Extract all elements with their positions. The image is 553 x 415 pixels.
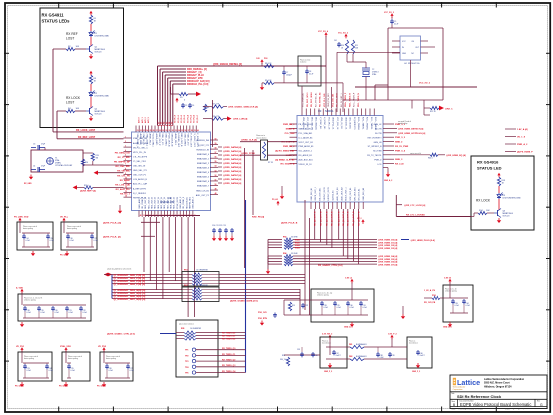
svg-text:AVDD_PLL2: AVDD_PLL2 (148, 134, 151, 146)
wire (90, 24, 92, 31)
net RX_PCLK- (103, 235, 121, 238)
svg-text:VD_PS1: VD_PS1 (16, 346, 25, 348)
svg-text:RX GS4911: RX GS4911 (42, 13, 65, 18)
svg-text:LOST: LOST (66, 101, 74, 105)
resistor R8 (262, 63, 274, 68)
svg-text:AUD_OUT_P1: AUD_OUT_P1 (196, 194, 210, 197)
svg-text:AGND_RETURN: AGND_RETURN (133, 142, 149, 145)
svg-text:RX REF: RX REF (66, 32, 78, 36)
svg-text:RX_Q1_OUT_B: RX_Q1_OUT_B (320, 211, 322, 226)
svg-text:SMB2_ADDR_1: SMB2_ADDR_1 (299, 128, 314, 131)
net @RX_GS4911_GENLOCK (228, 106, 258, 109)
svg-text:25: 25 (149, 130, 151, 132)
svg-text:XTAL_CAP_IN1: XTAL_CAP_IN1 (133, 137, 148, 140)
svg-text:DE_OUT_B01: DE_OUT_B01 (320, 187, 322, 201)
svg-text:0.1uF: 0.1uF (49, 370, 53, 372)
svg-text:TP3: TP3 (185, 361, 188, 363)
capacitor C5 (181, 103, 187, 108)
svg-text:PCL_SDA_B01: PCL_SDA_B01 (299, 132, 314, 135)
wire (471, 213, 494, 217)
svg-text:SMPTE_SEL: SMPTE_SEL (190, 196, 192, 209)
svg-text:AVD_3: AVD_3 (147, 117, 150, 123)
svg-text:35: 35 (181, 130, 183, 132)
svg-text:VDD_IO_271: VDD_IO_271 (161, 134, 163, 147)
svg-text:BLM18AG601: BLM18AG601 (356, 355, 367, 358)
svg-text:A_P1: A_P1 (160, 122, 163, 126)
svg-text:@RX_HDMI_D3 [4]: @RX_HDMI_D3 [4] (378, 247, 398, 250)
svg-text:@RX_GS4911_GENLOCK [4]: @RX_GS4911_GENLOCK [4] (228, 106, 258, 109)
svg-text:GND_SEL_271: GND_SEL_271 (133, 170, 148, 172)
svg-text:SD3_OUT_B: SD3_OUT_B (155, 196, 157, 208)
wire U2 refclk bundle verticals (158, 66, 173, 126)
wire (302, 36, 326, 109)
svg-text:Hillsboro, Oregon 97124: Hillsboro, Oregon 97124 (484, 385, 512, 388)
svg-text:53: 53 (215, 170, 217, 172)
svg-text:PB_SMB_CLK1: PB_SMB_CLK1 (299, 124, 314, 126)
svg-text:RX_1V8_FB: RX_1V8_FB (424, 302, 436, 304)
svg-text:3.3V_RX_2: 3.3V_RX_2 (322, 334, 333, 336)
svg-text:SMB2/DAT_2: SMB2/DAT_2 (197, 162, 210, 165)
title block address text (484, 378, 525, 389)
svg-text:PWR_5_3: PWR_5_3 (395, 137, 406, 139)
wire (244, 148, 246, 268)
LED D3 (497, 192, 521, 199)
svg-text:of device pairing: of device pairing (24, 300, 36, 302)
net C_F_2 (0, 0, 1, 1)
power VCC D1 chain (89, 11, 92, 16)
svg-text:RX_Q2_OUT_B: RX_Q2_OUT_B (327, 211, 329, 226)
svg-text:SCK_OUT_B1: SCK_OUT_B1 (350, 187, 352, 201)
net RX_GS4911_CTRL in (107, 333, 176, 336)
svg-text:VD_PLL1: VD_PLL1 (178, 115, 180, 123)
label RX GS4911 STATUS LEDs (42, 13, 71, 24)
svg-text:SMB_3: SMB_3 (395, 159, 403, 161)
svg-text:PS_LINK_VDD: PS_LINK_VDD (14, 217, 29, 219)
svg-text:RX_Q3_OUT_B: RX_Q3_OUT_B (332, 211, 334, 226)
power 1V8_B (444, 278, 452, 284)
svg-text:@RXD_DATA5 [4]: @RXD_DATA5 [4] (223, 166, 241, 169)
svg-text:U2: U2 (168, 196, 172, 200)
svg-text:GND_AUD_3: GND_AUD_3 (192, 196, 195, 209)
power VD_PS2 (98, 346, 107, 352)
svg-text:0.1uF: 0.1uF (337, 307, 341, 309)
svg-text:Place as close: Place as close (300, 60, 310, 62)
svg-text:N_RST_271: N_RST_271 (198, 145, 210, 147)
svg-text:Date:: Date: (452, 407, 457, 410)
wire (337, 52, 343, 112)
transistor Q1 (86, 45, 106, 54)
svg-text:H_SYNC_OUT: H_SYNC_OUT (190, 134, 192, 148)
resistor R2 10K (66, 46, 80, 51)
svg-text:U3: U3 (318, 109, 322, 113)
svg-text:@RX_HDMI_EQ [4]: @RX_HDMI_EQ [4] (446, 154, 466, 157)
wire (383, 168, 388, 172)
label TP box note (179, 323, 194, 326)
svg-text:PB_GENLOCK: PB_GENLOCK (115, 153, 131, 155)
label U2 bottom pin names (138, 196, 195, 209)
net RX_GS4911_DATA (230, 300, 258, 303)
ground (260, 85, 264, 90)
svg-text:GND_CORE2: GND_CORE2 (183, 134, 185, 147)
svg-text:TP2: TP2 (185, 355, 188, 357)
svg-text:CTL_PD_BYPS: CTL_PD_BYPS (133, 156, 148, 158)
svg-text:VD_PLL3: VD_PLL3 (184, 115, 186, 123)
svg-text:RX_CML_SEL: RX_CML_SEL (116, 166, 131, 168)
wire RX lock feed (396, 195, 471, 217)
svg-text:28: 28 (159, 130, 161, 132)
svg-text:RX_DDC_SCL1: RX_DDC_SCL1 (307, 92, 309, 107)
svg-text:39: 39 (194, 130, 196, 132)
svg-text:V_SYNC_OUT: V_SYNC_OUT (193, 134, 195, 148)
capacitor C8 (305, 66, 313, 83)
power labels pi filter (322, 334, 398, 340)
wire U2 right pin stubs (210, 138, 218, 195)
wire (53, 49, 124, 132)
label U3 right pin names (367, 124, 382, 166)
svg-text:R12 33: R12 33 (430, 111, 436, 113)
net RX_PCLK+ (103, 221, 121, 224)
wire (252, 150, 254, 215)
svg-text:RXD_RGB/Cb+ [4]: RXD_RGB/Cb+ [4] (187, 68, 207, 71)
svg-text:[4] SMB2_CLK_B1: [4] SMB2_CLK_B1 (275, 158, 295, 161)
svg-text:RX_LOS_AUD: RX_LOS_AUD (115, 183, 130, 186)
svg-text:close device: close device (322, 343, 331, 345)
svg-text:C3: C3 (33, 144, 35, 146)
svg-text:0.1uF: 0.1uF (41, 312, 45, 314)
svg-text:RXD/CLK_PLL [4:0]: RXD/CLK_PLL [4:0] (187, 83, 209, 86)
svg-text:BLM18AG601: BLM18AG601 (356, 343, 367, 346)
svg-text:SDO_EN_B1: SDO_EN_B1 (186, 196, 188, 209)
svg-text:PWR_5_4: PWR_5_4 (395, 149, 406, 152)
svg-text:A_P0: A_P0 (158, 122, 161, 126)
capacitor C9 (390, 17, 398, 25)
ground label (60, 251, 69, 257)
svg-text:R16: R16 (282, 355, 285, 357)
power PS_LINK_VDD (14, 217, 29, 223)
svg-text:device pairing: device pairing (68, 358, 78, 360)
svg-text:RX LOCK: RX LOCK (66, 96, 81, 100)
svg-text:GND_F_2: GND_F_2 (324, 371, 332, 373)
power 1V8_A (345, 277, 354, 284)
capacitor bank box C23 C24 (18, 351, 53, 381)
power XTAL_VDD (60, 345, 71, 352)
svg-text:R21 0: R21 0 (84, 185, 89, 187)
title block frame (450, 375, 547, 409)
power VCC_XO3 (384, 12, 394, 18)
svg-text:XTAL: XTAL (372, 73, 376, 76)
svg-text:VD_CORE_2: VD_CORE_2 (183, 196, 185, 209)
annotation box RX GS4911 STATUS LEDs (40, 8, 124, 128)
label U4 pins (402, 41, 420, 55)
capacitor bank box C16 C17 (61, 222, 98, 251)
svg-text:0.1uF: 0.1uF (55, 312, 59, 314)
svg-text:STATUS LEDs: STATUS LEDs (42, 19, 71, 24)
svg-text:SMB2/DAT_5: SMB2/DAT_5 (197, 176, 210, 179)
svg-text:VD_PLL7: VD_PLL7 (197, 115, 199, 123)
wire bus group A to right (219, 200, 310, 315)
svg-text:FB1: FB1 (349, 344, 352, 346)
svg-text:B: B (453, 403, 455, 407)
svg-text:series res nt fit: series res nt fit (410, 152, 422, 155)
svg-text:VD_PLL0: VD_PLL0 (175, 115, 177, 123)
svg-text:LED/GRN_SMD: LED/GRN_SMD (95, 36, 110, 38)
svg-text:RX1-_TMDS1: RX1-_TMDS1 (370, 117, 372, 130)
svg-text:1: 1 (125, 136, 126, 138)
capacitor bank box C25 (62, 351, 90, 381)
annotation box RX GS4916 STATUS LED (471, 156, 534, 230)
svg-text:R8 4.7K: R8 4.7K (265, 63, 272, 65)
svg-text:10 OHM/8P4R: 10 OHM/8P4R (196, 285, 208, 287)
svg-text:DDC_SDA_B1: DDC_SDA_B1 (315, 117, 318, 131)
svg-text:[4] RX_PCLK_B: [4] RX_PCLK_B (281, 222, 298, 225)
power VD_PS1 (16, 346, 25, 352)
wire to U3 (412, 100, 430, 115)
svg-text:1_8V_A_PS: 1_8V_A_PS (424, 289, 436, 292)
svg-text:XTAL_VDD: XTAL_VDD (60, 345, 71, 348)
svg-text:PS3: PS3 (264, 58, 267, 60)
wire pclk stub (141, 221, 160, 223)
wire pclk stub2 (141, 235, 155, 237)
svg-text:Place as: Place as (322, 341, 328, 343)
ground (212, 236, 234, 241)
svg-text:GND_AUD_2: GND_AUD_2 (179, 196, 182, 209)
ground label (443, 322, 452, 329)
power VD_PLL2 (60, 217, 69, 223)
wire (342, 83, 344, 100)
svg-text:R6: R6 (207, 107, 209, 109)
svg-text:A_REF_BYPS: A_REF_BYPS (133, 187, 147, 190)
ferrite bead FB2 (349, 355, 367, 361)
ground (24, 175, 33, 186)
svg-text:@RX_HDMI_D5 [4]: @RX_HDMI_D5 [4] (378, 258, 398, 261)
resistor network RN4 label (283, 252, 298, 255)
svg-text:RX_AUD_PLL: RX_AUD_PLL (116, 188, 131, 191)
svg-text:WS_OUT_B01: WS_OUT_B01 (354, 186, 356, 200)
label Y1 value (55, 158, 73, 168)
net labels U3 bottom pins (315, 211, 361, 226)
svg-text:SOT-23: SOT-23 (503, 216, 511, 218)
svg-text:AUD_PLL_CAP: AUD_PLL_CAP (133, 183, 148, 186)
svg-text:GEN_LB: GEN_LB (374, 142, 383, 144)
svg-text:RX_TMDS_Q4: RX_TMDS_Q4 (222, 370, 236, 373)
resistor R13 1K (497, 177, 506, 186)
svg-text:SiI9011: SiI9011 (325, 109, 334, 113)
net RX_REFIN (80, 190, 96, 193)
svg-text:50: 50 (215, 184, 217, 186)
svg-text:23: 23 (143, 130, 145, 132)
svg-text:@RX_HDMI_D4 [4]: @RX_HDMI_D4 [4] (378, 255, 398, 258)
svg-text:1.8V_A [4]: 1.8V_A [4] (517, 128, 528, 131)
wire (57, 110, 86, 112)
Lattice logo (453, 378, 481, 391)
svg-text:Sheet: Sheet (505, 407, 510, 410)
net arrow REF (73, 185, 124, 190)
svg-text:VCXO_CTRL1: VCXO_CTRL1 (152, 134, 154, 148)
label bus note (107, 268, 131, 271)
wire (498, 199, 500, 210)
svg-text:LCD: LCD (377, 164, 382, 166)
svg-text:TP5: TP5 (185, 373, 188, 375)
svg-text:SMB2_B: SMB2_B (286, 129, 295, 131)
svg-text:@RX_C: @RX_C (445, 109, 453, 111)
wire (498, 186, 500, 193)
svg-text:source device: source device (256, 136, 266, 139)
svg-text:@RX_LTC_LOCK [4]: @RX_LTC_LOCK [4] (404, 204, 425, 207)
svg-text:Place as cls., for: Place as cls., for (445, 289, 457, 291)
svg-text:1.8V_A: 1.8V_A (345, 277, 352, 280)
svg-text:SD2_OUT_B: SD2_OUT_B (151, 196, 153, 208)
svg-text:33: 33 (175, 130, 177, 132)
svg-text:RX_TMDS_Q0: RX_TMDS_Q0 (222, 348, 236, 350)
svg-text:10uF/T: 10uF/T (420, 355, 425, 357)
svg-text:AVD_2: AVD_2 (144, 117, 147, 123)
svg-text:0.1uF: 0.1uF (27, 312, 31, 314)
svg-text:C10 C11 C12 C13: C10 C11 C12 C13 (212, 225, 226, 227)
svg-text:RX_LTC_LOCKED: RX_LTC_LOCKED (406, 214, 425, 216)
resistor R18 (203, 116, 227, 120)
wire U3 bottom pin stubs (311, 202, 363, 209)
resistor R6 (203, 104, 209, 112)
net RX_LOCK_LOST (76, 129, 96, 132)
power A_VDD (16, 287, 24, 294)
svg-text:RX0+_TMDS1: RX0+_TMDS1 (357, 117, 359, 131)
svg-text:SOT-23: SOT-23 (95, 52, 103, 54)
svg-text:device pairing: device pairing (24, 358, 34, 360)
svg-text:RX LOCK: RX LOCK (476, 199, 491, 203)
svg-text:R18 4.7K: R18 4.7K (212, 116, 220, 118)
svg-text:GND_AUD_1: GND_AUD_1 (138, 196, 141, 209)
wire bus group B1 with RN3 (268, 238, 398, 269)
svg-text:RX_NC_1: RX_NC_1 (120, 193, 131, 195)
svg-text:RX_AREF: RX_AREF (120, 179, 131, 182)
svg-text:RX_VB_SEL: RX_VB_SEL (117, 171, 130, 173)
capacitor C41 (334, 40, 341, 47)
svg-text:PCLK_OUT2: PCLK_OUT2 (177, 196, 179, 209)
svg-text:C37: C37 (336, 353, 339, 355)
ground (118, 205, 122, 214)
wire U2 bottom pin stubs (139, 211, 196, 218)
svg-text:0.1uF: 0.1uF (350, 307, 354, 309)
svg-text:39: 39 (143, 215, 145, 217)
ground (401, 306, 405, 319)
svg-text:Place as: Place as (409, 341, 415, 343)
svg-text:RX_TMDS_D1: RX_TMDS_D1 (222, 336, 236, 338)
transistor Q3 (494, 209, 514, 218)
svg-text:2: 2 (125, 141, 126, 143)
wire oscillator loop (31, 150, 83, 172)
test points TP1-TP5 (185, 348, 246, 375)
capacitor C6 (188, 103, 194, 108)
wire (90, 97, 92, 108)
svg-text:22: 22 (140, 130, 142, 132)
svg-text:0.1uF: 0.1uF (83, 312, 87, 314)
net labels U2 top pins (138, 115, 199, 123)
svg-text:HDMI/CLK_IN: HDMI/CLK_IN (196, 149, 209, 151)
svg-text:0.1uF: 0.1uF (380, 357, 384, 359)
svg-text:RX1+_TMDS_P: RX1+_TMDS_P (354, 92, 356, 107)
capacitor bank C28-C31 (284, 283, 368, 316)
ground (20, 322, 24, 327)
wire (240, 154, 297, 156)
svg-text:38: 38 (191, 130, 193, 132)
svg-text:RX_TV_TEST/L: RX_TV_TEST/L (367, 155, 382, 157)
svg-text:VDD_IO_272: VDD_IO_272 (187, 134, 189, 147)
svg-text:GND_A_2: GND_A_2 (384, 179, 392, 182)
svg-text:55: 55 (215, 161, 217, 163)
svg-text:A_P5: A_P5 (170, 122, 173, 126)
annotation box FB bank2 (407, 337, 432, 368)
svg-text:@RXD_DATA8 [4]: @RXD_DATA8 [4] (223, 178, 241, 181)
crystal Y2 (362, 68, 379, 77)
svg-text:AVDD_PLL3: AVDD_PLL3 (174, 134, 177, 146)
svg-text:R20: R20 (85, 162, 88, 164)
svg-text:A_P2: A_P2 (163, 122, 166, 126)
svg-text:RX_TMDS_Q1: RX_TMDS_Q1 (222, 354, 236, 356)
title block document row (452, 400, 544, 407)
svg-text:I2S_ADDR_B1: I2S_ADDR_B1 (299, 154, 313, 157)
capacitor C3 (31, 144, 46, 151)
svg-text:RX_VSYNC_B1: RX_VSYNC_B1 (315, 92, 317, 107)
svg-text:G: G (540, 403, 543, 407)
svg-text:C41: C41 (334, 40, 337, 42)
capacitor C7 (282, 66, 292, 83)
svg-text:@RXD_DATA7 [4]: @RXD_DATA7 [4] (223, 174, 241, 177)
svg-text:[4] RX_PCLK+ [4]: [4] RX_PCLK+ [4] (103, 221, 121, 224)
svg-text:VD_PLL4: VD_PLL4 (186, 115, 189, 123)
wire U2 bottom bus join (145, 215, 200, 217)
op-amp U2 GS4911B outline (132, 132, 211, 211)
wire (262, 83, 343, 85)
svg-text:RX_VDDIO_B: RX_VDDIO_B (281, 164, 295, 166)
svg-text:Corporation: Corporation (453, 388, 463, 391)
svg-text:RX_GND: RX_GND (24, 183, 32, 185)
svg-text:VD_PLL6: VD_PLL6 (194, 115, 196, 123)
svg-text:RX_TMDS_Q3: RX_TMDS_Q3 (222, 365, 236, 367)
label R7 value (268, 162, 273, 164)
net labels right edge (505, 128, 533, 154)
svg-text:AVD_0: AVD_0 (138, 117, 141, 123)
svg-text:5555 N.E. Moore Court: 5555 N.E. Moore Court (484, 382, 510, 385)
ferrite bead FB1 (349, 343, 367, 349)
svg-text:SLCTB: SLCTB (375, 133, 382, 135)
capacitor bank box C26 C27 (100, 351, 134, 381)
annotation box series R close to device (256, 134, 268, 160)
net RX_PCLK stub (281, 222, 298, 225)
svg-text:SMB2/DAT_4: SMB2/DAT_4 (197, 171, 210, 174)
svg-text:H_SYNC_IN1: H_SYNC_IN1 (323, 117, 325, 130)
svg-text:33 OHM: 33 OHM (291, 237, 298, 239)
svg-text:36: 36 (184, 130, 186, 132)
svg-text:RX GS4916: RX GS4916 (477, 160, 499, 165)
capacitor C36 (311, 352, 317, 357)
svg-text:Lattice Semiconductor Corporat: Lattice Semiconductor Corporation (484, 378, 525, 381)
net @RX_GS4911_LOR (227, 116, 248, 120)
capacitor bank C10-C13 (212, 225, 234, 236)
capacitor C37 (332, 350, 340, 357)
svg-text:SLCT/KB: SLCT/KB (373, 151, 382, 153)
svg-text:RN5: RN5 (181, 328, 184, 330)
svg-text:RN1: RN1 (184, 270, 188, 272)
svg-text:RX_REF_LOST: RX_REF_LOST (78, 136, 96, 139)
svg-text:RX_CTL_PD: RX_CTL_PD (117, 175, 130, 177)
wire (53, 48, 86, 50)
svg-text:C6: C6 (192, 105, 194, 107)
svg-text:RX_Q8_OUT_B: RX_Q8_OUT_B (358, 211, 360, 226)
svg-text:33 OHM: 33 OHM (291, 253, 298, 255)
svg-text:MCLK_OUT_1: MCLK_OUT_1 (346, 186, 348, 200)
wire (337, 52, 400, 62)
svg-text:[4] RX_GS4911_CTRL [2:0]: [4] RX_GS4911_CTRL [2:0] (107, 333, 135, 336)
